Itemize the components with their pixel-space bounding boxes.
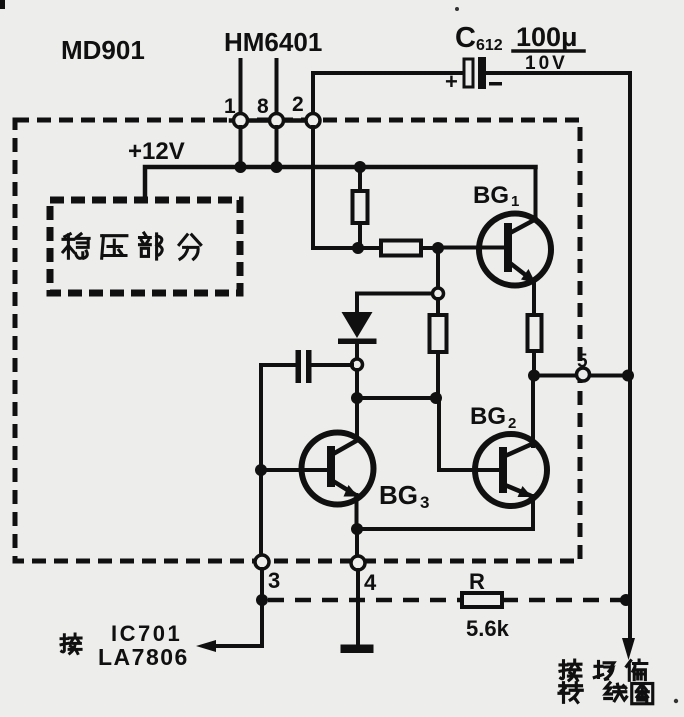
- pin 4 terminal: [351, 556, 365, 570]
- diode D1: [338, 294, 377, 360]
- wire node5 down to BG2 collector: [531, 376, 535, 447]
- transistor BG2: [475, 434, 547, 506]
- svg-text:2: 2: [292, 93, 304, 116]
- wire HM6401 lead to pin 1: [239, 60, 243, 116]
- big dashed box (MD901 module boundary): [15, 120, 580, 561]
- svg-text:8: 8: [257, 95, 269, 118]
- svg-text:3: 3: [268, 568, 280, 593]
- terminal node 5: [577, 368, 590, 381]
- label 接 before IC701: [61, 634, 81, 653]
- svg-text:612: 612: [476, 37, 503, 54]
- junction dot rail R1: [354, 161, 366, 173]
- junction dot base right: [432, 242, 444, 254]
- svg-text:C: C: [455, 22, 476, 54]
- svg-text:1: 1: [224, 95, 236, 118]
- wire small node to R4: [436, 299, 440, 315]
- wire base dot down to small node: [436, 248, 440, 288]
- junction dot pin8 rail: [271, 161, 283, 173]
- svg-text:2: 2: [508, 415, 516, 432]
- svg-text:1: 1: [511, 193, 519, 210]
- wire rail to BG1 collector: [534, 167, 538, 220]
- junction dot right rail node5: [622, 370, 634, 382]
- svg-text:100μ: 100μ: [516, 22, 578, 52]
- label 接场偏 line: [560, 660, 647, 680]
- wire pin1 down to +12V rail: [239, 127, 243, 167]
- resistor R1 vertical from rail: [353, 167, 368, 248]
- junction dot emitter bus: [351, 523, 363, 535]
- arrow to deflection coil: [622, 638, 635, 660]
- junction dot pin3 R wire: [256, 594, 268, 606]
- resistor R 5.6k: [462, 593, 502, 607]
- wire BG2 base: [439, 398, 500, 470]
- junction dot mid left: [351, 392, 363, 404]
- svg-text:3: 3: [420, 493, 429, 512]
- wire HM6401 lead to pin 8: [275, 60, 279, 116]
- wire +12V rail: [145, 167, 536, 200]
- capacitor C coupling: [261, 350, 352, 383]
- svg-text:LA7806: LA7806: [98, 644, 189, 670]
- left vertical wire: [259, 365, 263, 556]
- wire base to BG1: [438, 246, 506, 250]
- transistor BG3: [302, 433, 374, 505]
- svg-text:HM6401: HM6401: [224, 27, 322, 57]
- pin 1 terminal: [234, 114, 248, 128]
- solid bar joining pins 1 8 2: [231, 118, 319, 123]
- wire pin4 down to ground: [356, 570, 360, 645]
- wire diode top node horizontal: [357, 292, 438, 296]
- wire pin2 riser to top rail: [313, 73, 462, 116]
- ground: [341, 645, 374, 654]
- wire small node down to mid dot: [355, 370, 359, 398]
- label 转线圈 line: [559, 683, 653, 704]
- resistor R2 horizontal base: [358, 241, 438, 256]
- svg-text:BG: BG: [470, 403, 506, 430]
- capacitor C612 plates: [464, 57, 486, 89]
- wire BG3 collector: [355, 398, 359, 440]
- junction dot base left: [352, 242, 364, 254]
- pin 8 terminal: [270, 114, 284, 128]
- svg-text:10V: 10V: [525, 53, 568, 74]
- wire to LA7806 with arrow: [212, 644, 262, 648]
- wire pin2 down to base line: [313, 127, 356, 248]
- dashed box regulator section: [50, 200, 240, 293]
- junction dot BG3 base: [255, 464, 267, 476]
- wire BG1 emitter down: [532, 281, 536, 315]
- svg-text:5.6k: 5.6k: [466, 616, 510, 641]
- scan speck top-left corner: [0, 0, 5, 9]
- wire C612 to right rail: [486, 73, 630, 373]
- wire BG3 base: [261, 468, 328, 472]
- svg-text:+: +: [445, 69, 458, 94]
- transistor BG1: [479, 214, 551, 286]
- svg-text:BG: BG: [379, 480, 418, 510]
- wire pin8 down to +12V rail: [275, 127, 279, 167]
- junction dot right rail bottom: [620, 594, 632, 606]
- wire pin3 down: [260, 569, 264, 646]
- small node circle diode cathode: [352, 359, 363, 370]
- label - of C612: [489, 82, 502, 86]
- wire BG3 emitter down: [355, 495, 359, 529]
- resistor R4 mid vertical: [430, 315, 447, 398]
- resistor R3 BG1 emitter: [528, 315, 542, 376]
- small node circle right: [433, 288, 444, 299]
- svg-text:4: 4: [364, 570, 377, 595]
- junction dot emitter node5: [528, 370, 540, 382]
- junction dot pin1 rail: [235, 161, 247, 173]
- label regulator section text 稳压部分: [63, 233, 201, 259]
- dashed wire bottom feedback R: [268, 598, 462, 603]
- svg-text:5: 5: [577, 351, 588, 372]
- wire to pin 4: [355, 529, 359, 557]
- svg-text:MD901: MD901: [61, 35, 145, 65]
- svg-text:BG: BG: [473, 182, 509, 209]
- pin 2 terminal: [306, 114, 320, 128]
- wire node5 horizontal: [534, 374, 630, 378]
- wire right rail lower part: [628, 373, 632, 642]
- svg-text:IC701: IC701: [111, 621, 182, 646]
- svg-text:+12V: +12V: [128, 138, 185, 165]
- pin 3 terminal: [255, 555, 269, 569]
- svg-text:R: R: [469, 569, 485, 594]
- wire emitter bus to BG2 emitter: [357, 496, 533, 529]
- wire mid horizontal node: [357, 396, 439, 400]
- junction dot mid right: [430, 392, 442, 404]
